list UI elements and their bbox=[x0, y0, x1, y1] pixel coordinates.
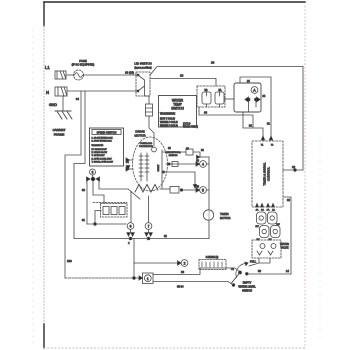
svg-text:FRAME: FRAME bbox=[54, 133, 65, 137]
connector plug L1 bbox=[55, 71, 66, 79]
wire to connector 5 bbox=[160, 188, 170, 190]
connector 5 bbox=[200, 187, 207, 194]
svg-text:W- WASH FAST: W- WASH FAST bbox=[92, 148, 108, 151]
wire 90 bbox=[86, 180, 88, 224]
svg-text:5A: 5A bbox=[219, 89, 222, 92]
wire 16 to lid switch bbox=[84, 74, 137, 76]
svg-text:16 (16): 16 (16) bbox=[125, 70, 134, 74]
water temp switch contacts bbox=[197, 86, 225, 107]
svg-text:94: 94 bbox=[76, 97, 80, 101]
svg-text:LID SWITCH: LID SWITCH bbox=[134, 62, 151, 66]
timer motor TM bbox=[203, 210, 213, 220]
svg-text:CABINET: CABINET bbox=[52, 128, 65, 132]
connector 1 bbox=[139, 276, 143, 280]
svg-text:FULL: FULL bbox=[250, 261, 257, 264]
wire to ground bbox=[62, 96, 64, 111]
svg-text:18: 18 bbox=[180, 74, 184, 78]
svg-text:N: N bbox=[46, 90, 49, 95]
stub to timer feed bbox=[199, 156, 209, 158]
start winding bbox=[145, 153, 149, 181]
svg-text:VALVE: VALVE bbox=[281, 246, 289, 250]
wire centrifugal jumper bbox=[162, 171, 164, 173]
start lead bbox=[161, 150, 163, 188]
wire motor to protector net bbox=[163, 151, 186, 153]
svg-text:14: 14 bbox=[286, 269, 290, 273]
main winding bbox=[139, 153, 143, 181]
svg-text:MOTOR: MOTOR bbox=[220, 216, 230, 220]
wire 94 to empty contact bbox=[153, 282, 233, 285]
svg-text:7: 7 bbox=[148, 225, 150, 229]
svg-text:91: 91 bbox=[82, 218, 86, 222]
svg-text:3-RINSE (4): 3-RINSE (4) bbox=[206, 257, 219, 259]
svg-text:WARM / COLD: WARM / COLD bbox=[160, 124, 178, 128]
svg-text:(open position): (open position) bbox=[134, 66, 151, 70]
svg-text:3: 3 bbox=[92, 171, 94, 175]
svg-text:103: 103 bbox=[67, 259, 72, 263]
neutral bus bbox=[74, 238, 209, 240]
wire to cam bbox=[99, 181, 140, 199]
speed switch cam arrow bbox=[126, 166, 130, 170]
svg-text:EMPTY: EMPTY bbox=[243, 282, 252, 285]
wire 36 bbox=[199, 107, 253, 128]
svg-text:CENTRIFUGAL: CENTRIFUGAL bbox=[165, 151, 181, 154]
connector 6 bbox=[127, 223, 134, 230]
svg-text:31: 31 bbox=[267, 122, 271, 126]
connector 7 bbox=[145, 223, 152, 230]
svg-text:5B: 5B bbox=[205, 89, 208, 92]
junction dots bbox=[247, 98, 250, 101]
timer motor feed bbox=[208, 157, 210, 210]
svg-text:Y- SPIN FAST: Y- SPIN FAST bbox=[92, 154, 106, 157]
svg-text:X- WASH SLOW: X- WASH SLOW bbox=[92, 151, 108, 154]
water level switch bbox=[239, 271, 242, 274]
water valve solenoid 3 bbox=[260, 226, 270, 238]
svg-text:5: 5 bbox=[202, 189, 204, 193]
svg-text:WATER LEVEL: WATER LEVEL bbox=[238, 286, 256, 289]
speed switch contacts bbox=[93, 202, 127, 204]
timer and signal control box bbox=[252, 141, 283, 207]
motor pins left bbox=[129, 160, 133, 169]
svg-text:WATER: WATER bbox=[280, 242, 289, 246]
svg-text:2: 2 bbox=[184, 262, 186, 266]
svg-text:15: 15 bbox=[287, 198, 291, 202]
connector plug N bbox=[55, 87, 67, 96]
svg-text:L1: L1 bbox=[45, 65, 50, 70]
wire neutral drop bbox=[74, 91, 85, 239]
svg-text:4: 4 bbox=[202, 163, 204, 167]
water temp switch legend box bbox=[159, 96, 197, 128]
junction bbox=[133, 277, 136, 280]
svg-text:CONTROL: CONTROL bbox=[267, 167, 271, 182]
svg-text:WASH/SPIN: WASH/SPIN bbox=[92, 144, 104, 147]
svg-text:1- SLOW INTERLOCK: 1- SLOW INTERLOCK bbox=[92, 138, 114, 140]
connector 3 bbox=[90, 169, 96, 175]
svg-text:PROTECTOR: PROTECTOR bbox=[139, 146, 153, 148]
svg-text:32: 32 bbox=[249, 124, 253, 128]
wire 15 bbox=[283, 197, 291, 274]
svg-text:95 94: 95 94 bbox=[177, 285, 184, 289]
wire bbox=[66, 74, 73, 76]
water valve assembly bbox=[252, 240, 281, 258]
wire 91 run bbox=[87, 223, 126, 225]
motor lead to connector 6 bbox=[130, 191, 132, 223]
wire 16 top run bbox=[150, 67, 303, 76]
svg-text:START: START bbox=[157, 164, 160, 172]
svg-text:1: 1 bbox=[147, 277, 149, 281]
svg-text:(IF SO EQUIPPED): (IF SO EQUIPPED) bbox=[72, 63, 95, 67]
wire 16 right drop bbox=[302, 67, 304, 171]
water valve solenoid 2 bbox=[268, 212, 278, 224]
motor protector box with lamp A bbox=[234, 83, 261, 112]
water valve solenoid 1 bbox=[257, 212, 267, 224]
svg-text:36: 36 bbox=[204, 111, 208, 115]
winding commons bbox=[135, 185, 158, 193]
svg-text:2- FAST INTERLOCK: 2- FAST INTERLOCK bbox=[92, 140, 113, 143]
svg-text:WASH ONLY): WASH ONLY) bbox=[183, 126, 198, 129]
connector 2 bbox=[181, 260, 188, 267]
svg-text:98: 98 bbox=[181, 270, 185, 274]
water valve solenoid 4 bbox=[271, 226, 281, 238]
svg-text:SWITCH: SWITCH bbox=[169, 155, 178, 157]
wire to speed contacts bbox=[93, 181, 104, 203]
indicator A bbox=[251, 87, 258, 94]
svg-text:16: 16 bbox=[211, 61, 215, 65]
svg-text:SWITCH: SWITCH bbox=[171, 107, 184, 111]
svg-text:MOTOR: MOTOR bbox=[134, 134, 146, 138]
ground (cabinet frame) bbox=[55, 111, 72, 119]
wire lid switch to motor bbox=[145, 96, 149, 104]
inline connector bbox=[146, 104, 153, 116]
overload protector bbox=[152, 147, 157, 152]
wire 103 bottom run bbox=[65, 277, 139, 279]
wire 50 to water level switch bbox=[248, 273, 291, 275]
wire bbox=[225, 98, 234, 100]
svg-text:OVERLOAD: OVERLOAD bbox=[140, 142, 153, 145]
wire 18 bbox=[150, 79, 216, 87]
svg-text:T- WASH, SPIN SLOW: T- WASH, SPIN SLOW bbox=[92, 161, 113, 164]
svg-text:90: 90 bbox=[82, 188, 86, 192]
svg-text:GND: GND bbox=[49, 103, 57, 107]
svg-text:10: 10 bbox=[292, 165, 296, 169]
svg-text:Z- SPIN SLOW, FAST: Z- SPIN SLOW, FAST bbox=[92, 158, 113, 161]
svg-text:SPEED SWITCH: SPEED SWITCH bbox=[97, 131, 117, 135]
motor lead to connector 7 bbox=[148, 196, 150, 223]
wire to connector 2 bbox=[133, 239, 135, 279]
wire 31 bbox=[240, 77, 271, 137]
wire 32 bbox=[243, 112, 263, 137]
wire 98 bbox=[153, 268, 240, 275]
wire to connector 4 bbox=[166, 163, 196, 165]
svg-text:WARM / COLD: WARM / COLD bbox=[160, 120, 178, 124]
wire valve common bbox=[249, 258, 270, 266]
svg-text:SWITCH: SWITCH bbox=[242, 290, 252, 293]
wire N to lid switch bbox=[67, 90, 136, 92]
wire 94 drop bbox=[65, 91, 81, 278]
control box bottom pins bbox=[256, 204, 275, 208]
speed switch legend box bbox=[90, 128, 124, 166]
junction under connector 3 bbox=[92, 175, 94, 177]
svg-text:6: 6 bbox=[130, 225, 132, 229]
svg-text:WASH/RINSE: WASH/RINSE bbox=[160, 113, 175, 116]
pin arrows into control bbox=[261, 136, 272, 140]
wire 10 bbox=[283, 169, 303, 171]
svg-text:HOT / COLD: HOT / COLD bbox=[160, 117, 175, 121]
connector 4 bbox=[200, 161, 207, 168]
svg-text:FUSE: FUSE bbox=[79, 59, 87, 63]
wire timer motor to bus bbox=[208, 221, 210, 239]
